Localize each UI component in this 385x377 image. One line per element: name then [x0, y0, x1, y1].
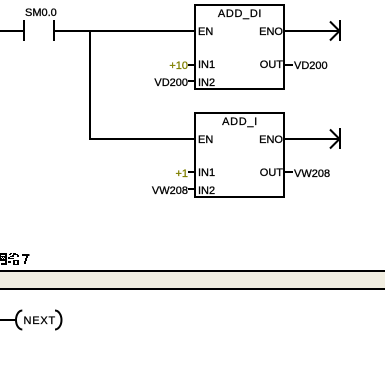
coil NEXT	[16, 311, 62, 330]
continuation arrow 1	[330, 20, 341, 41]
network title glyph 网 (clipped)	[0, 253, 7, 265]
pin tick IN2 (ADD_I)	[188, 188, 195, 190]
svg-text:ADD_DI: ADD_DI	[218, 8, 262, 20]
network number 7 (bold)	[22, 254, 30, 264]
pin tick IN2 (ADD_DI)	[188, 80, 195, 82]
op block ADD_DI U1	[195, 5, 284, 89]
svg-text:OUT: OUT	[260, 59, 284, 71]
svg-text:IN1: IN1	[198, 167, 215, 179]
contact SM0.0	[23, 7, 57, 41]
svg-text:EN: EN	[198, 134, 213, 146]
pin tick IN1 (ADD_DI)	[188, 64, 195, 66]
svg-text:IN2: IN2	[198, 185, 215, 197]
wire: left rail to contact SM0.0	[0, 30, 23, 32]
svg-text:SM0.0: SM0.0	[25, 7, 57, 19]
svg-text:VW208: VW208	[152, 185, 188, 197]
wire: ADD_DI ENO to arrow 1	[285, 30, 339, 32]
svg-text:IN2: IN2	[198, 77, 215, 89]
wire: contact to ADD_DI EN pin	[55, 30, 194, 32]
svg-text:EN: EN	[198, 26, 213, 38]
pin tick IN1 (ADD_I)	[188, 171, 195, 173]
svg-text:NEXT: NEXT	[24, 315, 57, 327]
svg-text:ADD_I: ADD_I	[222, 116, 258, 128]
svg-text:OUT: OUT	[260, 167, 284, 179]
pin tick OUT (ADD_DI)	[285, 64, 293, 66]
svg-text:+1: +1	[175, 168, 188, 180]
pin tick OUT (ADD_I)	[285, 171, 293, 173]
junction node: vertical branch wire	[89, 30, 91, 140]
network separator line bottom	[0, 288, 385, 290]
svg-text:ENO: ENO	[259, 134, 283, 146]
svg-text:ENO: ENO	[259, 26, 283, 38]
wire: ADD_I ENO to arrow 2	[285, 138, 339, 140]
svg-text:VD200: VD200	[294, 60, 328, 72]
network separator band	[0, 272, 385, 288]
network title glyph 络	[8, 253, 19, 265]
svg-text:+10: +10	[169, 60, 188, 72]
op block ADD_I U2	[195, 113, 284, 197]
svg-text:IN1: IN1	[198, 59, 215, 71]
svg-text:VW208: VW208	[294, 168, 330, 180]
wire: branch to ADD_I EN pin	[91, 138, 194, 140]
svg-text:VD200: VD200	[154, 77, 188, 89]
continuation arrow 2	[330, 128, 341, 149]
wire: left rail to NEXT coil	[0, 319, 16, 321]
network separator line top	[0, 270, 385, 272]
